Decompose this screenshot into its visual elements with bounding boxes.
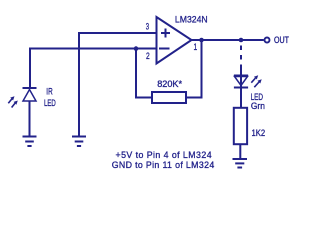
svg-text:LED: LED bbox=[44, 97, 56, 108]
svg-text:1K2: 1K2 bbox=[252, 127, 266, 138]
svg-text:IR: IR bbox=[46, 87, 53, 97]
svg-text:+5V to Pin 4 of LM324: +5V to Pin 4 of LM324 bbox=[116, 150, 213, 160]
svg-text:GND to Pin 11 of LM324: GND to Pin 11 of LM324 bbox=[112, 160, 215, 170]
svg-text:3: 3 bbox=[146, 21, 149, 32]
svg-text:2: 2 bbox=[146, 51, 150, 61]
svg-text:LM324N: LM324N bbox=[175, 14, 208, 24]
svg-text:Grn: Grn bbox=[251, 101, 265, 111]
svg-text:1: 1 bbox=[193, 42, 197, 52]
svg-text:820K*: 820K* bbox=[157, 79, 182, 89]
svg-text:OUT: OUT bbox=[274, 35, 289, 45]
